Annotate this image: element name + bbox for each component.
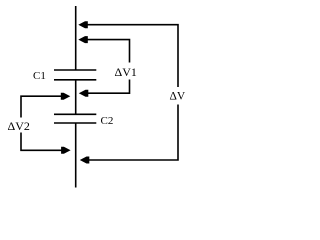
wire: deltaV bracket (right outer), top run + right vertical upper part — [86, 25, 179, 87]
svg-text:ΔV2: ΔV2 — [8, 119, 30, 133]
svg-text:C2: C2 — [101, 115, 114, 127]
wire: deltaV bracket right vertical lower part + bottom run — [87, 105, 178, 161]
arrowhead on deltaV top, points left at node A — [78, 21, 88, 28]
wire: deltaV2 bracket left vertical lower part + bottom run — [21, 133, 63, 151]
arrowhead on deltaV1 bottom, points left at node B — [79, 90, 89, 97]
wire: deltaV1 bracket (inner), top run + vertical upper part — [86, 40, 130, 63]
arrowhead on deltaV1 top, points left at node A — [78, 36, 88, 43]
svg-text:ΔV: ΔV — [170, 91, 186, 103]
wire: deltaV1 bracket vertical lower part + bottom run — [86, 80, 130, 94]
svg-text:C1: C1 — [33, 70, 46, 82]
capacitor C1 — [54, 69, 96, 71]
capacitor C2 — [54, 113, 96, 115]
arrowhead on deltaV2 bottom, points right at node C — [61, 147, 71, 154]
arrowhead on deltaV bottom, points left at node C — [80, 157, 90, 164]
wire: main vertical conductor top segment — [75, 6, 77, 70]
wire: segment between C1 and C2 — [75, 80, 77, 114]
wire: bottom segment below C2 — [75, 123, 77, 188]
svg-text:ΔV1: ΔV1 — [115, 65, 137, 79]
arrowhead on deltaV2 top, points right at node B — [61, 93, 71, 100]
wire: deltaV2 bracket (left), top run + left vertical upper part — [21, 96, 63, 117]
